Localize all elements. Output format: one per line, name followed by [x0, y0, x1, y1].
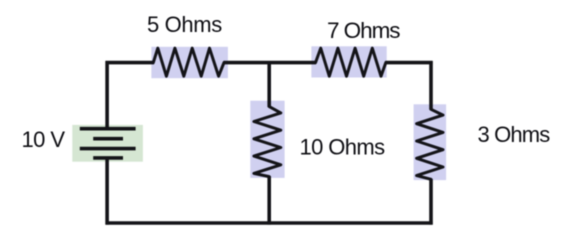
wire middle branch lower — [267, 176, 271, 224]
svg-text:5 Ohms: 5 Ohms — [147, 12, 222, 37]
battery V1 highlight box — [72, 125, 143, 162]
wire top-middle segment — [224, 61, 317, 65]
battery V1 plates (10 V source) — [80, 129, 136, 158]
wire right vertical upper — [429, 61, 433, 110]
wire left vertical lower (battery negative lead) — [105, 158, 109, 225]
svg-text:3 Ohms: 3 Ohms — [478, 122, 551, 147]
svg-text:7 Ohms: 7 Ohms — [327, 18, 400, 43]
svg-text:10 Ohms: 10 Ohms — [300, 134, 386, 159]
wire middle branch upper (node between R1 and R2) — [267, 61, 271, 107]
resistor R1 highlight box (5 Ohms) — [151, 47, 228, 78]
resistor R3 zigzag (10 Ohms) — [254, 107, 281, 177]
resistor R1 zigzag (5 Ohms) — [153, 48, 224, 76]
resistor R2 highlight box (7 Ohms) — [311, 46, 386, 77]
wire left vertical upper (battery positive lead) — [105, 61, 109, 129]
svg-text:10 V: 10 V — [22, 127, 66, 152]
wire top-right segment — [385, 61, 432, 65]
resistor R4 highlight box (3 Ohms) — [414, 104, 447, 180]
resistor R3 highlight box (10 Ohms) — [250, 101, 284, 178]
wire right vertical lower — [429, 179, 433, 225]
resistor R2 zigzag (7 Ohms) — [316, 48, 386, 76]
wire top-left segment — [106, 61, 155, 65]
wire bottom rail — [106, 221, 433, 225]
resistor R4 zigzag (3 Ohms) — [417, 109, 443, 179]
